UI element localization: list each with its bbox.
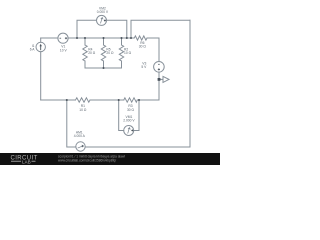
resistor R4 leads <box>84 38 86 45</box>
svg-text:www.circuitlab.com/circuit/258: www.circuitlab.com/circuit/2586hvkbp8fq/ <box>58 159 116 163</box>
node bus-R2 <box>120 37 122 39</box>
node trio bottom tie R5 <box>102 67 104 69</box>
svg-text:5 V: 5 V <box>141 65 147 69</box>
wire bus left segment to V1 <box>41 37 58 39</box>
wire bottom bus right segment <box>137 99 159 101</box>
voltmeter VM1 circle <box>124 126 134 136</box>
svg-text:10 Ω: 10 Ω <box>79 108 87 112</box>
VM2 arrow <box>101 18 103 24</box>
wire flag stub <box>159 78 163 80</box>
voltage source V3 circle <box>154 62 165 73</box>
svg-text:10 V: 10 V <box>60 48 68 52</box>
voltage source V1 circle <box>58 33 68 43</box>
wire V3 bottom to bottom bus <box>158 72 160 100</box>
wire VM2 right branch <box>107 20 127 38</box>
resistor R3 zigzag <box>124 98 138 102</box>
wire parallel trio bottom tie <box>85 67 122 69</box>
resistor R2 zigzag <box>119 45 123 61</box>
wire bus V1 to R6 <box>68 37 134 39</box>
watermark bar <box>0 153 220 165</box>
VM1 arrow <box>128 128 130 134</box>
svg-text:10 Ω: 10 Ω <box>124 51 132 55</box>
flag triangle <box>163 76 169 82</box>
wire VM2 left branch <box>77 20 97 38</box>
wire left rail I1 down <box>40 52 42 100</box>
wire top return to bus <box>131 20 190 38</box>
resistor R5 zigzag <box>101 45 105 61</box>
node bus-topreturn <box>130 37 132 39</box>
node bus-R5 <box>102 37 104 39</box>
svg-text:20 Ω: 20 Ω <box>88 51 96 55</box>
wire right rail up <box>189 20 191 147</box>
logo CircuitLab <box>11 155 38 164</box>
component labels <box>30 6 147 138</box>
svg-text:6 A: 6 A <box>30 47 36 51</box>
node bus-R4 <box>84 37 86 39</box>
svg-text:0.000 V: 0.000 V <box>97 10 109 14</box>
node bottom bus branch <box>66 99 68 101</box>
wire VM1 left branch <box>119 100 124 131</box>
wire R6 right to corner and down to V3 <box>147 38 159 62</box>
wire branch down to AM1 <box>67 100 76 147</box>
VM2 plus <box>104 20 106 22</box>
junction dots <box>66 37 161 101</box>
node bus-VM2-right <box>126 37 128 39</box>
wire AM1 to right rail <box>85 146 190 148</box>
ammeter AM1 circle <box>76 142 85 151</box>
V3 minus <box>158 63 160 65</box>
wire VM1 right branch <box>134 100 139 131</box>
V1 minus <box>60 37 62 39</box>
svg-text:30 Ω: 30 Ω <box>139 44 147 48</box>
VM1 plus <box>131 129 133 131</box>
node VM1 left <box>118 99 120 101</box>
source polarity glyphs <box>60 20 161 132</box>
wire bottom bus middle segment <box>90 99 124 101</box>
resistor R6 zigzag <box>134 36 147 40</box>
wire I1 top lead <box>40 38 42 42</box>
resistor R5 leads <box>103 38 105 45</box>
I1 arrow <box>40 46 42 51</box>
V3 plus <box>158 68 160 70</box>
current source I1 circle <box>36 42 45 51</box>
resistor R1 zigzag <box>76 98 91 102</box>
svg-text:LAB: LAB <box>22 160 31 165</box>
svg-text:2.000 V: 2.000 V <box>123 119 135 123</box>
node VM1 right <box>138 99 140 101</box>
voltmeter VM2 circle <box>97 15 107 25</box>
svg-text:30 Ω: 30 Ω <box>127 108 135 112</box>
node bus-VM2-left <box>76 37 78 39</box>
wire bottom bus left segment <box>41 99 76 101</box>
V1 plus <box>65 37 67 39</box>
watermark text lines <box>58 155 125 163</box>
resistor R4 zigzag <box>83 45 87 61</box>
node flag square <box>158 78 161 81</box>
svg-text:4.000 A: 4.000 A <box>74 134 86 138</box>
resistor R2 leads <box>121 38 123 45</box>
svg-text:20 Ω: 20 Ω <box>106 51 114 55</box>
AM1 arrow <box>78 146 84 148</box>
